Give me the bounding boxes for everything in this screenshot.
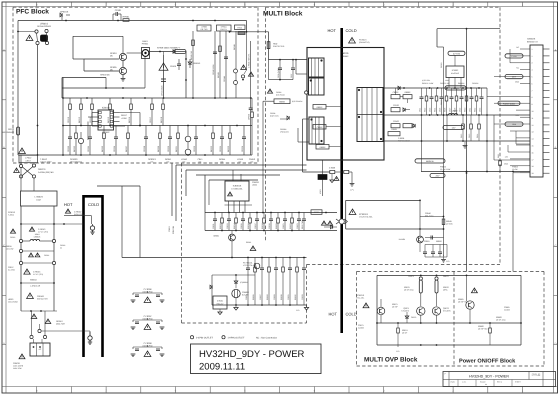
capacitor CF815 bulk <box>159 55 168 98</box>
wire inlet to earth <box>41 331 90 336</box>
svg-text:+1050: +1050 <box>121 117 128 120</box>
wire col 220 <box>217 31 222 98</box>
svg-text:C809S: C809S <box>393 91 400 94</box>
wire 420 branch <box>420 200 444 236</box>
connector pin P2 <box>30 311 47 339</box>
wire pfc top inner <box>73 36 142 53</box>
label HOT left <box>64 202 73 207</box>
svg-text:T801S: T801S <box>342 52 349 55</box>
diode DF808 <box>173 50 186 54</box>
svg-text:10: 10 <box>532 110 534 113</box>
svg-text:STBY2M: STBY2M <box>172 226 175 234</box>
svg-text:R9032: R9032 <box>294 294 297 300</box>
resistor R9060 boxed <box>311 210 322 215</box>
capacitor C807 col <box>290 60 295 80</box>
title text line 1 <box>199 349 305 360</box>
Power ON/OFF block boundary <box>453 272 455 367</box>
resistor RF825 <box>101 126 105 156</box>
svg-text:(B)T-R2005W: (B)T-R2005W <box>292 100 303 103</box>
wire choke right <box>150 51 174 55</box>
resistor CF817 <box>149 98 154 126</box>
svg-text:R814: R814 <box>476 134 479 138</box>
svg-text:MC: MC <box>110 55 114 58</box>
capacitor C9021 <box>282 213 287 231</box>
warning triangle C809S <box>267 89 284 96</box>
resistor R830 <box>463 88 467 115</box>
svg-text:CF824: CF824 <box>87 145 90 152</box>
wire PFC bus B <box>63 125 252 127</box>
svg-text:TRANS: TRANS <box>342 55 349 58</box>
svg-text:C805S: C805S <box>317 126 324 129</box>
svg-text:2009.11.11: 2009.11.11 <box>199 362 245 373</box>
resistor R9014 <box>233 213 237 231</box>
svg-text:C9013: C9013 <box>226 223 229 229</box>
warning triangle loop <box>349 209 356 214</box>
wire under xfmr3 <box>349 172 352 183</box>
svg-text:RF813: RF813 <box>78 116 81 123</box>
svg-text:IC801: IC801 <box>319 189 322 194</box>
wire fb row2 <box>494 115 530 160</box>
wire q pair down <box>421 315 437 323</box>
label PC-T9001S <box>356 294 365 299</box>
svg-text:RF833: RF833 <box>210 145 213 152</box>
svg-text:R8012S 1/4W: R8012S 1/4W <box>422 82 433 85</box>
svg-text:13: 13 <box>532 131 534 134</box>
wire PFC bus C <box>18 154 252 156</box>
capacitor CF846 <box>248 98 253 155</box>
transformer aux winding <box>309 117 324 144</box>
resistor RF835 <box>227 126 232 156</box>
wire col 250 <box>248 41 251 98</box>
svg-text:C9001: C9001 <box>168 225 171 232</box>
transistor Q9071 <box>401 307 425 315</box>
svg-text:I-T12V-T3L-SEL: I-T12V-T3L-SEL <box>359 216 373 219</box>
resistor RF860 smd <box>238 32 245 35</box>
label left margin 3 <box>8 266 15 271</box>
svg-text:R9026: R9026 <box>252 294 255 300</box>
svg-text:MULTI Block: MULTI Block <box>263 11 303 18</box>
svg-text:16V_A: 16V_A <box>452 87 459 90</box>
wire cn pin wires <box>487 56 530 138</box>
wire ovp box left <box>376 275 378 345</box>
svg-text:RF841 2W: RF841 2W <box>190 51 193 60</box>
transformer primary winding 2 <box>309 78 325 95</box>
label LF840 <box>181 158 188 164</box>
svg-text:C: C <box>3 245 5 248</box>
capacitor C9029 <box>273 258 278 306</box>
wire barrier to stby <box>97 186 213 258</box>
svg-text:MAIN B+: MAIN B+ <box>426 160 435 163</box>
svg-text:C823: C823 <box>428 108 431 112</box>
svg-text:R830: R830 <box>463 108 466 112</box>
connector LF801S degaussing <box>18 23 51 45</box>
label C-9008 TOP <box>398 137 411 143</box>
pill net 24V <box>430 173 445 177</box>
svg-text:C9027: C9027 <box>259 294 262 300</box>
label HOT top <box>328 28 337 33</box>
MULTI block boundary <box>266 7 501 323</box>
svg-text:(NON-LP)W: (NON-LP)W <box>142 290 152 293</box>
svg-text:RF829: RF829 <box>157 145 160 152</box>
svg-text:IC9001S: IC9001S <box>233 185 242 188</box>
label C9081 <box>504 306 510 311</box>
wire 443 lower <box>443 172 445 256</box>
wire route nest5 <box>196 175 280 213</box>
capacitor C9025 <box>245 258 250 306</box>
zener D9073 <box>405 312 416 323</box>
capacitor C9017 <box>254 213 259 231</box>
wire 443 drop <box>443 52 445 142</box>
wire 246 drop <box>244 32 247 74</box>
wire multi right drop1 <box>437 29 444 52</box>
svg-text:C: C <box>555 245 557 248</box>
capacitor C-F8008 pair <box>131 342 165 357</box>
svg-text:Q9001: Q9001 <box>213 235 219 238</box>
capacitor C806 col <box>277 60 282 80</box>
resistor RF815 <box>107 98 111 126</box>
svg-text:F853 TKR: F853 TKR <box>301 220 304 229</box>
wire PFC bus A <box>63 97 252 99</box>
svg-text:QF-NP 78O: QF-NP 78O <box>478 327 488 330</box>
capacitor C823 <box>428 88 433 115</box>
wire rail 263 <box>262 101 264 213</box>
svg-text:D-R30B (200)TBR: D-R30B (200)TBR <box>38 171 54 174</box>
pill net 12V <box>443 125 464 129</box>
wire mid return2 <box>62 78 145 89</box>
wire left rail A <box>20 206 22 311</box>
resistor R9022 <box>289 213 293 231</box>
svg-text:SF805: SF805 <box>110 66 117 69</box>
wire pfc left drop <box>73 36 84 59</box>
resistor R9082 <box>478 323 491 345</box>
resistor RF847 <box>251 98 254 155</box>
label row sec top <box>422 79 479 85</box>
label Power ON/OFF Block <box>459 358 516 365</box>
label boxes D803 <box>391 104 410 112</box>
capacitor CF822 <box>67 126 72 156</box>
connector CN802S <box>527 38 550 178</box>
svg-text:(B)4F-D2W: (B)4F-D2W <box>270 114 279 117</box>
svg-text:15: 15 <box>532 145 534 148</box>
photocoupler PC9002A <box>243 262 260 269</box>
wire route nest2 <box>175 165 177 221</box>
svg-text:MF-CERAMIC: MF-CERAMIC <box>70 160 83 163</box>
barrier HOT/COLD left <box>84 196 103 357</box>
svg-text:SF803 MB: SF803 MB <box>100 74 110 77</box>
svg-text:QF-0F: QF-0F <box>402 331 408 334</box>
resistor RF813 <box>78 98 82 126</box>
resistor R809S boxed <box>263 99 303 104</box>
svg-text:CF830: CF830 <box>167 145 170 152</box>
svg-text:(SAAN07-S): (SAAN07-S) <box>359 41 370 44</box>
svg-text:C8015S NC: C8015S NC <box>440 82 450 85</box>
svg-text:HOT: HOT <box>329 312 338 317</box>
resistor R828 <box>453 88 457 115</box>
transistor Q8041 <box>399 236 424 252</box>
svg-text:RF816: RF816 <box>128 116 131 123</box>
wire under xfmr <box>303 171 331 173</box>
wire stby bus3 <box>212 304 307 306</box>
wire degauss to bus <box>37 45 39 156</box>
svg-text:COLD: COLD <box>346 28 357 33</box>
label C845S <box>249 158 256 164</box>
svg-text:REG-5V: REG-5V <box>217 303 224 306</box>
ground stby1 <box>234 305 238 310</box>
wire cn stub col <box>510 49 516 144</box>
svg-text:A: A <box>3 49 5 52</box>
label box KF84A <box>217 25 232 31</box>
diode D9040 <box>210 285 212 289</box>
svg-text:1/4W: 1/4W <box>445 79 449 82</box>
resistor R805S boxed <box>313 105 341 110</box>
wire ic left stubs <box>88 113 92 141</box>
wire multi top rail <box>437 28 500 30</box>
svg-text:CF828: CF828 <box>143 145 146 152</box>
wire xfmr aux left <box>303 119 310 172</box>
svg-text:2-F-47 (JT3): 2-F-47 (JT3) <box>33 273 43 276</box>
svg-text:TF801: TF801 <box>237 26 242 29</box>
label row left <box>40 158 83 164</box>
warning triangle W inlet <box>19 354 25 359</box>
capacitor C821 <box>418 88 423 115</box>
svg-text:D: D <box>3 342 5 345</box>
inductor L802S <box>449 110 459 116</box>
pill net cn3 <box>498 101 520 105</box>
svg-text:R809S: R809S <box>440 62 443 68</box>
capacitor CF828 <box>143 126 148 156</box>
svg-text:4: 4 <box>532 69 533 72</box>
wire sec top bus <box>421 87 487 89</box>
svg-text:QFNL: QFNL <box>443 288 448 291</box>
svg-text:R9022: R9022 <box>289 223 292 229</box>
cluster lower right caps <box>423 240 447 257</box>
svg-text:RF843: RF843 <box>217 72 220 78</box>
label T801S <box>342 52 349 58</box>
svg-text:DP841: DP841 <box>165 158 172 161</box>
pill net cn2 <box>505 75 523 79</box>
svg-text:(A)TC-5DL: (A)TC-5DL <box>422 79 430 82</box>
wire sec bus 141 <box>384 140 530 142</box>
svg-text:C841: C841 <box>198 158 204 161</box>
wire sec mid rails <box>422 115 448 141</box>
svg-text:RF818: RF818 <box>160 116 163 123</box>
wire loop left <box>345 200 347 229</box>
label COLD left <box>88 202 99 207</box>
svg-text:CF822: CF822 <box>67 145 70 152</box>
diode D810 aux <box>270 112 289 120</box>
diode D860 <box>324 225 337 229</box>
capacitor C9031 <box>287 258 292 306</box>
label left margin 2 <box>6 245 14 250</box>
svg-text:220V-115RB: 220V-115RB <box>13 365 24 368</box>
capacitor CF830 <box>167 126 172 156</box>
svg-text:CF834: CF834 <box>219 145 222 152</box>
transistor Q9001 <box>213 231 235 258</box>
svg-text:RF827: RF827 <box>125 145 128 152</box>
wire cn bottom pin <box>513 172 530 174</box>
svg-text:C810S: C810S <box>393 120 400 123</box>
photo triac U9060 <box>232 289 250 305</box>
resistor RF816 <box>128 98 133 126</box>
svg-text:CF832: CF832 <box>193 145 196 152</box>
svg-text:C9033: C9033 <box>301 294 304 300</box>
wire ovp box right <box>520 275 522 345</box>
wire xfmr feed drop <box>296 60 307 74</box>
wire rung 311 <box>21 310 65 325</box>
wire left rail B <box>53 206 55 311</box>
svg-text:T-PB12: T-PB12 <box>40 158 48 161</box>
svg-text:R8018S: R8018S <box>458 82 465 85</box>
svg-text:BRIDGE-19: BRIDGE-19 <box>527 40 538 43</box>
wire cn extra pins <box>510 49 530 173</box>
label C9009S <box>280 128 289 133</box>
wire stby left A <box>204 213 206 231</box>
svg-text:12V: 12V <box>452 127 456 130</box>
pill net MAIN B+ <box>415 159 445 163</box>
label DP844 <box>219 158 226 164</box>
svg-text:A4: A4 <box>485 383 487 386</box>
svg-text:J-PL: J-PL <box>446 260 450 263</box>
resistor R822 <box>423 88 427 115</box>
svg-text:17: 17 <box>532 158 534 161</box>
warning left margin a <box>10 229 16 239</box>
svg-text:PC9001S: PC9001S <box>359 213 369 216</box>
resistor R9028 <box>266 258 270 306</box>
label left margin 4 <box>8 298 19 303</box>
resistor CF812 <box>67 98 71 126</box>
svg-text:C9060S: C9060S <box>242 291 250 294</box>
label SP801S <box>148 158 156 164</box>
svg-text:(C)3906A: (C)3906A <box>240 281 248 284</box>
wire QF pair <box>122 61 124 78</box>
capacitor CP801S <box>113 9 122 20</box>
wire ovp left drop <box>376 322 378 324</box>
connector pin P1 <box>38 324 41 333</box>
wire fb row1 <box>486 88 488 172</box>
wire col 226 <box>223 31 228 98</box>
wire under xfmr2 <box>335 171 344 173</box>
capacitor CF836 <box>241 126 246 156</box>
wire route nest6 <box>209 180 258 205</box>
svg-text:14: 14 <box>532 138 534 141</box>
resistor RF833 <box>210 126 215 156</box>
label R862 <box>446 220 454 225</box>
wire onoff drop <box>467 275 471 323</box>
ground lower right <box>441 257 450 263</box>
svg-text:C9029: C9029 <box>273 294 276 300</box>
svg-text:GRKIT: GRKIT <box>25 159 31 162</box>
svg-text:C827: C827 <box>448 108 451 112</box>
transformer primary winding 1 <box>305 58 324 94</box>
transistor Q9081 <box>458 298 474 309</box>
wire rung 215 <box>64 209 92 224</box>
svg-text:CF842 630V: CF842 630V <box>212 64 215 75</box>
wire right col a <box>185 52 187 99</box>
svg-text:1: 1 <box>532 48 533 51</box>
svg-text:1M-1/2W: 1M-1/2W <box>6 247 14 250</box>
svg-text:DP844: DP844 <box>219 158 226 161</box>
warning triangle W801 <box>26 35 33 40</box>
svg-text:KA7552: KA7552 <box>102 131 110 134</box>
svg-text:CF817: CF817 <box>149 116 152 123</box>
zener D9041 <box>234 275 248 288</box>
svg-text:R812: R812 <box>460 134 463 138</box>
svg-text:KTC3875: KTC3875 <box>401 309 409 312</box>
svg-text:COLD: COLD <box>346 312 357 317</box>
warning triangle hot pair <box>321 221 332 225</box>
diode DP801S <box>60 11 70 21</box>
resistor R9018 <box>261 213 265 231</box>
label box TF801 <box>235 25 246 30</box>
svg-text:MC: MC <box>110 69 114 72</box>
svg-text:LF840: LF840 <box>181 158 188 161</box>
wire ovp box top <box>377 275 521 277</box>
capacitor C-F8007 pair <box>131 315 165 330</box>
svg-text:DR-TKR: DR-TKR <box>201 28 208 31</box>
svg-text:(2)-6W: (2)-6W <box>512 168 518 171</box>
label PR802 <box>440 166 450 171</box>
svg-text:(NON-LP)W: (NON-LP)W <box>142 344 152 347</box>
label R809S <box>440 62 443 105</box>
svg-text:RF825: RF825 <box>101 145 104 152</box>
label KF808 <box>157 47 181 50</box>
svg-text:R9012: R9012 <box>219 223 222 229</box>
svg-text:C-9008: C-9008 <box>329 167 335 170</box>
svg-text:R824: R824 <box>433 108 436 112</box>
title block <box>443 372 556 387</box>
svg-text:RF835: RF835 <box>227 145 230 152</box>
svg-text:7: 7 <box>532 89 533 92</box>
label L9003 <box>252 181 260 186</box>
pill QF801 <box>174 49 186 53</box>
label MULTI OVP Block <box>364 357 418 364</box>
wire pfc left vert <box>62 78 64 156</box>
capacitor C9011 <box>212 213 217 231</box>
resistor RF818 <box>160 98 165 126</box>
resistor R9020 <box>275 213 279 231</box>
wire loop top <box>346 200 421 202</box>
wire route nest1 <box>172 163 176 216</box>
svg-text:C9021: C9021 <box>282 223 285 229</box>
resistor R9026 <box>252 258 256 306</box>
svg-text:DF845: DF845 <box>233 44 236 50</box>
resistor R826 <box>443 88 447 115</box>
svg-text:DEGAUSSING: DEGAUSSING <box>37 25 51 28</box>
pin chassis 246 <box>241 32 253 81</box>
wire loop bottom <box>346 228 444 230</box>
warning triangle stby2 <box>246 241 256 250</box>
svg-text:R9031: R9031 <box>246 241 251 244</box>
svg-text:SHEET: SHEET <box>515 381 521 384</box>
svg-text:C833: C833 <box>478 108 481 112</box>
wire left rail <box>17 21 19 156</box>
wire xfmr top feed <box>269 59 308 61</box>
label C9040 ground <box>296 309 300 312</box>
svg-text:5: 5 <box>532 76 533 79</box>
label inlet <box>13 362 24 370</box>
svg-text:RF817: RF817 <box>121 114 128 117</box>
STBY block boundary <box>182 163 307 323</box>
svg-text:BF1250MAX: BF1250MAX <box>3 131 15 134</box>
svg-text:RF831: RF831 <box>175 145 178 152</box>
label LF848 <box>237 158 244 164</box>
svg-text:R822: R822 <box>423 108 426 112</box>
svg-text:D9072: D9072 <box>443 275 449 278</box>
svg-text:T-AB24: T-AB24 <box>8 213 14 216</box>
label boxes D804 <box>391 120 415 128</box>
svg-text:LF848: LF848 <box>237 158 244 161</box>
earth ground in barrier top <box>90 224 94 234</box>
